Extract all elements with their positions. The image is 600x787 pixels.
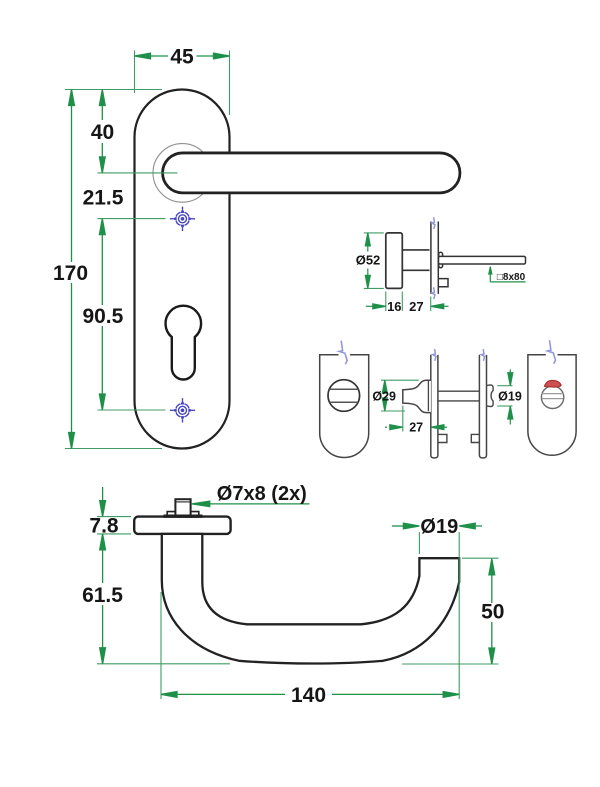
dimension 16: [366, 299, 402, 314]
screw lug side view: [439, 279, 448, 287]
square spindle end: [175, 499, 190, 516]
spindle boss: [439, 252, 443, 267]
svg-text:Ø19: Ø19: [498, 389, 522, 403]
dimension 50: [481, 559, 504, 664]
ext screw2 level: [98, 409, 166, 411]
svg-text:Ø29: Ø29: [372, 389, 396, 403]
screw hole marker bottom: [170, 398, 195, 422]
svg-text:45: 45: [170, 46, 194, 69]
svg-text:50: 50: [481, 601, 504, 624]
indicator window circle: [541, 386, 563, 408]
dimension 21.5: [83, 187, 124, 210]
collar base thick line: [164, 515, 203, 518]
thumbturn knob profile: [403, 380, 431, 412]
svg-text:170: 170: [53, 262, 88, 285]
svg-text:□8x80: □8x80: [497, 272, 526, 283]
dimension 40: [91, 90, 114, 173]
label diameter 7x8 2x: [192, 483, 310, 507]
dimension diameter 19 bottom: [392, 516, 482, 538]
dimension 140: [161, 684, 459, 707]
svg-text:40: 40: [91, 121, 114, 144]
svg-text:21.5: 21.5: [83, 187, 124, 210]
dimension diameter 29: [372, 380, 396, 411]
extension lines front view: [65, 51, 230, 449]
svg-text:Ø19: Ø19: [420, 516, 458, 538]
break mark left escutcheon: [339, 341, 347, 365]
dimension diameter 52: [356, 233, 381, 289]
svg-text:140: 140: [291, 684, 326, 707]
label square 8x80: [489, 267, 526, 283]
break mark right escutcheon: [548, 340, 556, 364]
dimension 170: [53, 90, 88, 449]
backplate front outline: [135, 90, 230, 449]
break mark top: [432, 217, 435, 229]
right escutcheon outline: [528, 355, 576, 455]
screw lug right: [471, 434, 479, 442]
outer plate edge-on: [479, 355, 486, 458]
svg-text:27: 27: [409, 421, 423, 435]
ext 45 right: [229, 51, 231, 116]
dimension 27 middle: [385, 421, 447, 435]
svg-text:61.5: 61.5: [82, 584, 123, 607]
dimension 61.5: [82, 550, 123, 664]
svg-text:Ø52: Ø52: [356, 253, 381, 268]
ext screw1 level: [98, 218, 166, 220]
lever handle top view U shape: [162, 534, 459, 664]
lever handle front (stadium bar): [163, 153, 460, 193]
spindle between plates: [438, 391, 480, 401]
indicator slot lines: [542, 394, 564, 399]
svg-text:Ø7x8 (2x): Ø7x8 (2x): [217, 483, 307, 505]
red occupancy indicator: [544, 380, 561, 387]
ext lines side view: [364, 233, 431, 311]
ext plate bottom: [65, 448, 162, 450]
break mark bottom: [432, 287, 435, 299]
handle neck side: [402, 250, 429, 270]
svg-text:90.5: 90.5: [82, 305, 123, 328]
emergency release knob: [487, 385, 494, 407]
dimension 27 side: [409, 299, 448, 314]
left escutcheon outline: [320, 355, 369, 458]
ext lines bottom view: [97, 517, 499, 699]
square spindle 8x80: [439, 256, 526, 264]
inner plate edge-on: [431, 355, 438, 458]
dimension diameter 19 middle: [498, 369, 522, 424]
ext lines middle row: [381, 380, 513, 431]
dimension 7.8: [89, 487, 119, 550]
dimension 90.5: [82, 219, 123, 410]
svg-text:7.8: 7.8: [89, 515, 119, 538]
svg-text:27: 27: [409, 299, 423, 314]
thumbturn front circle: [328, 380, 360, 412]
break mark inner plate: [433, 349, 436, 361]
ext lever centerline: [98, 172, 178, 174]
door plate edge-on: [431, 222, 438, 294]
dimension 45: [135, 46, 230, 69]
break mark outer plate: [481, 349, 484, 361]
screw hole marker top: [170, 207, 195, 231]
bearing collar steps: [167, 512, 199, 517]
plate top view bar: [134, 517, 230, 534]
svg-text:16: 16: [387, 299, 401, 314]
euro cylinder keyhole: [166, 306, 202, 380]
ext 45 left: [134, 51, 136, 94]
ext plate top: [65, 89, 162, 91]
thumbturn slot lines: [329, 389, 358, 402]
screw lug left: [438, 434, 447, 442]
rose outer thin circle: [153, 144, 212, 203]
rose side rect: [386, 233, 403, 289]
